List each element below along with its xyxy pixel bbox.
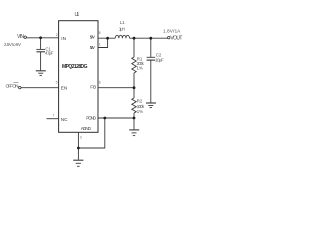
svg-text:1%: 1%: [137, 66, 143, 71]
node: SW junction: [106, 37, 109, 40]
wire AGND stub: [77, 132, 79, 159]
svg-text:NC: NC: [61, 117, 68, 122]
wire SW pin 1 loop: [98, 38, 108, 47]
svg-text:2.5V to 6V: 2.5V to 6V: [4, 42, 21, 47]
svg-text:8: 8: [99, 31, 101, 35]
overline on ON: [13, 82, 18, 84]
wire FB pin: [98, 87, 134, 89]
svg-text:1µH: 1µH: [119, 26, 125, 31]
wire C1 to ground: [40, 52, 42, 70]
ground (AGND): [73, 159, 83, 161]
svg-text:SW: SW: [90, 35, 96, 40]
svg-text:MPQ2128DG: MPQ2128DG: [62, 64, 88, 70]
node: FB junction: [133, 86, 136, 89]
wire L1 to VOUT: [130, 37, 168, 39]
wire EN from OFF/ON: [21, 87, 59, 89]
svg-text:OFF ON: OFF ON: [6, 84, 19, 89]
node: R1 top junction: [133, 37, 136, 40]
op-amp U1 (IC MPQ2128DG box): [59, 21, 98, 133]
node: PGND branch junction: [103, 117, 106, 120]
wire C2 to ground: [150, 60, 152, 102]
wire R1 bottom to FB node: [133, 73, 135, 88]
capacitor C2: [147, 56, 156, 58]
svg-text:PGND: PGND: [86, 115, 96, 120]
wire NC stub: [47, 118, 59, 120]
wire PGND pin: [98, 117, 134, 119]
terminal VIN: [24, 36, 26, 38]
svg-text:VIN: VIN: [17, 34, 24, 40]
resistor R2: [132, 98, 136, 113]
svg-text:5: 5: [56, 81, 58, 85]
svg-text:4.7µF: 4.7µF: [45, 50, 54, 55]
node: R2 bottom junction: [133, 117, 136, 120]
wire SW pin 8: [98, 37, 115, 39]
svg-text:EN: EN: [61, 86, 68, 91]
capacitor C1: [36, 48, 45, 50]
svg-text:2: 2: [56, 33, 58, 37]
svg-text:7: 7: [52, 114, 54, 118]
node: AGND junction: [77, 147, 80, 150]
svg-text:1%: 1%: [137, 109, 143, 114]
svg-text:U1: U1: [75, 12, 80, 18]
svg-text:3: 3: [80, 136, 82, 140]
svg-text:R2: R2: [137, 99, 143, 104]
svg-text:FB: FB: [90, 85, 96, 90]
wire VIN to IN pin: [26, 37, 58, 39]
node: VIN junction: [39, 36, 42, 39]
resistor R1: [132, 57, 136, 73]
wire C2 branch: [150, 38, 152, 57]
ground (C2): [146, 102, 156, 104]
wire R2 bottom to PGND rail: [133, 113, 135, 118]
ground (C1): [36, 70, 46, 72]
svg-text:10µF: 10µF: [155, 58, 164, 63]
wire R2 node to ground: [133, 118, 135, 129]
svg-text:VOUT: VOUT: [170, 36, 182, 42]
wire R2 top: [133, 88, 135, 98]
wire R1 top: [133, 38, 135, 57]
terminal EN (OFF/ON): [19, 86, 21, 88]
wire PGND rail down: [78, 118, 104, 148]
node: C2 top junction: [149, 37, 152, 40]
wire C1 branch down: [40, 38, 42, 49]
ground (R2/PGND): [129, 129, 139, 131]
svg-text:AGND: AGND: [81, 126, 92, 131]
svg-text:IN: IN: [61, 36, 66, 41]
svg-text:1: 1: [99, 43, 101, 47]
svg-text:4: 4: [97, 113, 99, 117]
terminal VOUT: [168, 36, 170, 38]
inductor L1: [115, 35, 129, 38]
svg-text:SW: SW: [90, 45, 96, 50]
svg-text:L1: L1: [120, 20, 125, 25]
svg-text:1.8V/1A: 1.8V/1A: [163, 29, 180, 34]
svg-text:6: 6: [99, 81, 101, 85]
